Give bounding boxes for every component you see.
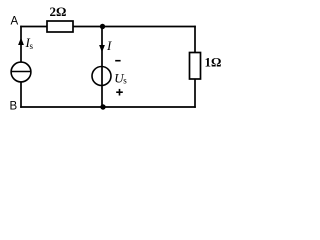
resistor 1-ohm (right) [190, 53, 201, 80]
voltage source plus sign [116, 91, 123, 93]
wire middle branch [101, 27, 103, 108]
svg-text:1Ω: 1Ω [205, 55, 222, 70]
svg-text:I: I [106, 38, 112, 53]
svg-text:s: s [30, 41, 34, 51]
svg-text:s: s [123, 75, 127, 85]
current I arrow (middle branch) [99, 45, 105, 52]
voltage source minus sign [115, 60, 120, 62]
voltage source Us symbol [92, 67, 111, 86]
junction dot bottom [100, 104, 105, 109]
svg-text:2Ω: 2Ω [50, 4, 67, 19]
wire bottom (node B rail) [20, 106, 196, 108]
svg-text:A: A [11, 16, 19, 28]
current source Is arrow [18, 38, 24, 46]
svg-text:B: B [10, 101, 18, 113]
current source Is symbol [11, 62, 31, 82]
junction dot top [100, 24, 105, 29]
wire left branch [20, 26, 22, 108]
resistor 2-ohm (top) [47, 21, 73, 32]
wire top (node A to node at top of 1-ohm branch) [20, 26, 196, 28]
wire right branch [194, 26, 196, 108]
